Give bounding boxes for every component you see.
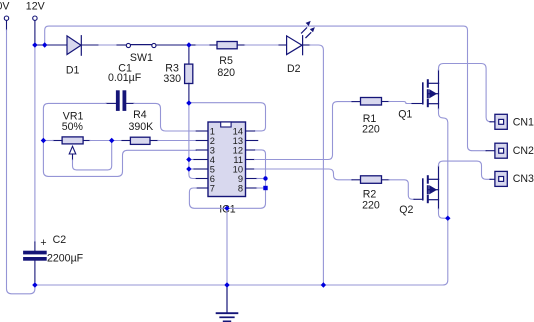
potentiometer VR1 [62, 137, 83, 144]
svg-text:50%: 50% [62, 121, 84, 133]
junction at R3 top [186, 42, 191, 47]
resistor R4 [130, 137, 150, 144]
svg-text:7: 7 [210, 183, 215, 193]
LED D2 [287, 28, 311, 55]
svg-text:2200µF: 2200µF [47, 253, 84, 265]
transistor Q2 (MOSFET) [423, 166, 439, 209]
svg-text:5: 5 [210, 164, 215, 174]
ground symbol [226, 287, 228, 313]
svg-text:Q2: Q2 [399, 204, 413, 216]
wire R1 to Q1 gate [382, 101, 390, 103]
wire D2 cathode down right of IC to ground rail [303, 44, 310, 46]
junction ground symbol / rail [224, 282, 229, 287]
wire pin 13 stub [246, 140, 258, 142]
wire pin 8 stub to vertical [246, 187, 258, 189]
svg-text:CN2: CN2 [513, 145, 534, 157]
wire pin 9 stub to vertical [246, 178, 258, 180]
wire VR1 left terminal to C1 net [53, 140, 62, 142]
svg-text:D1: D1 [66, 65, 80, 77]
svg-text:CN3: CN3 [513, 173, 534, 185]
wire R2 to Q2 gate [382, 179, 390, 181]
wire junction to R5 [189, 44, 196, 46]
svg-text:4: 4 [210, 155, 215, 165]
junction at R4 left / wiper [109, 138, 114, 143]
junction at VR1 left / C1 net [41, 138, 46, 143]
wire 0V rail down left side to ground rail [6, 21, 8, 30]
capacitor C1 [116, 90, 120, 111]
junction Q1/Q2 source / rail riser [445, 216, 450, 221]
wire 12V rail down to junction and C2 [34, 21, 36, 46]
svg-text:2: 2 [210, 136, 215, 146]
IC IC1 body [208, 122, 246, 197]
wire C1 right plate to IC pin 1 [126, 102, 134, 104]
wire SW1 to R3 top junction [156, 44, 189, 46]
wire Q2 source to ground junction [439, 209, 448, 218]
wire Q1 source down to common source rail [439, 109, 448, 218]
junction D2 cathode / rail [321, 282, 326, 287]
IC pin numbers left [210, 126, 215, 193]
wire R3 bottom junction right to IC pin 14 [189, 103, 266, 131]
wire Q1 drain up and right to CN1 [439, 64, 492, 122]
IC pin numbers right [233, 126, 243, 193]
wire Q2 drain up and right to CN3 [439, 161, 492, 179]
resistor R3 [188, 45, 190, 64]
svg-text:0.01µF: 0.01µF [108, 72, 142, 84]
resistor R2 [361, 176, 382, 184]
svg-text:6: 6 [210, 174, 215, 184]
junction at IC pin 9 (dot) [263, 176, 267, 180]
wire D1 cathode to SW1 [81, 44, 99, 46]
junction at R3 bottom [186, 100, 191, 105]
wire VR1 right terminal to R4 [83, 140, 90, 142]
node 0V terminal pin [4, 16, 8, 20]
resistor R1 [361, 98, 382, 106]
wire top 12V rail across to right side down to CN2 [45, 26, 486, 151]
connector CN1 [495, 114, 507, 129]
junction at 12V rail right (top rail tap) [42, 42, 47, 47]
connector CN2 [495, 143, 507, 158]
svg-text:CN1: CN1 [513, 117, 534, 129]
wire pin 6 stub [196, 178, 208, 180]
svg-text:D2: D2 [287, 63, 301, 75]
svg-text:9: 9 [238, 174, 243, 184]
svg-text:14: 14 [233, 126, 243, 136]
svg-text:10: 10 [233, 164, 243, 174]
svg-text:R5: R5 [219, 55, 233, 67]
wire pin 4 stub [189, 159, 194, 161]
junction C2 bottom / ground rail [32, 282, 37, 287]
capacitor C2 [23, 251, 47, 255]
svg-text:Q1: Q1 [398, 108, 412, 120]
svg-text:220: 220 [362, 124, 380, 136]
svg-text:0V: 0V [0, 0, 10, 12]
wire R3 bottom junction down to pins 4,5 and 6 [189, 103, 196, 179]
svg-text:SW1: SW1 [130, 52, 153, 64]
resistor R5 [217, 42, 237, 49]
wire under-IC junction down to ground rail [226, 208, 228, 285]
svg-text:820: 820 [217, 67, 235, 79]
wire R4 to IC pin 2 [150, 140, 158, 142]
junction at 12V rail left [32, 42, 37, 47]
switch SW1 [126, 43, 156, 47]
svg-text:13: 13 [233, 136, 243, 146]
wire VR1 wiper to R4 left junction [73, 141, 112, 170]
svg-text:3: 3 [210, 145, 215, 155]
node 12V terminal pin [33, 16, 37, 20]
svg-text:11: 11 [233, 155, 243, 165]
svg-text:8: 8 [238, 183, 243, 193]
diode D1 [67, 36, 81, 56]
svg-text:12V: 12V [26, 0, 46, 12]
svg-text:220: 220 [362, 199, 380, 211]
wire C1 left plate to VR1 left and IC pin 3 [106, 102, 116, 104]
wire R5 to D2 anode [237, 44, 245, 46]
svg-text:+: + [40, 237, 46, 249]
IC notch [221, 122, 231, 127]
svg-text:330: 330 [163, 73, 181, 85]
wire ground rail along bottom [35, 218, 448, 285]
wire 12V junction to D1 anode [35, 44, 67, 46]
junction at IC pin 8 (square wire end) [263, 186, 267, 190]
svg-text:R4: R4 [133, 109, 147, 121]
wire pin 5 stub [189, 168, 194, 170]
wire IC pin 7 to ground net under IC [196, 187, 208, 189]
svg-text:C2: C2 [53, 234, 67, 246]
junction at IC pin 4 [186, 157, 191, 162]
wire IC pin 11 to R1 [246, 159, 255, 161]
svg-text:390K: 390K [129, 121, 154, 133]
junction under IC (pin 7 / ground) [224, 206, 229, 211]
svg-text:12: 12 [233, 145, 243, 155]
connector CN3 [495, 171, 507, 186]
junction at IC pin 5 [186, 166, 191, 171]
svg-text:1: 1 [210, 126, 215, 136]
transistor Q1 (MOSFET) [423, 70, 439, 109]
wire IC pin 10 to R2 [246, 168, 255, 170]
